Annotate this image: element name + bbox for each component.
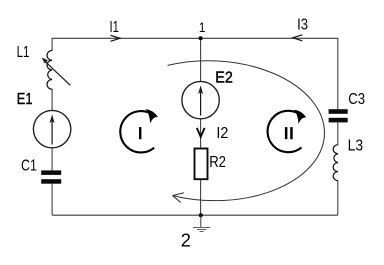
ground <box>193 215 210 231</box>
wire middle between E2 and R2 <box>200 119 202 148</box>
wire right between C3 and L3 <box>337 122 339 145</box>
svg-text:I1: I1 <box>110 17 119 36</box>
wire left between L1 and E1 <box>51 89 53 111</box>
wire right lower segment <box>337 180 339 215</box>
svg-text:2: 2 <box>181 230 191 250</box>
svg-text:I2: I2 <box>216 124 228 142</box>
arrow through L1 (variable) <box>42 58 71 86</box>
inductor L1 <box>47 51 52 90</box>
arrow inside E2 <box>198 85 203 115</box>
current arrow I3 <box>293 35 303 41</box>
wire top-right segment <box>201 37 338 39</box>
wire left upper segment <box>51 38 53 51</box>
node 1 junction dot <box>199 36 203 40</box>
wire middle upper segment <box>200 38 202 81</box>
svg-text:R2: R2 <box>209 154 226 171</box>
wire top-left segment <box>52 37 201 39</box>
flux loop ellipse arrow <box>168 61 325 203</box>
mesh current arrow II (right loop) <box>268 110 307 152</box>
capacitor C3 <box>329 109 348 122</box>
wire left between E1 and C1 <box>51 147 53 170</box>
current arrow I2 <box>197 129 204 137</box>
current arrow I1 <box>111 35 121 41</box>
wire bottom segment <box>52 214 338 216</box>
wire left lower segment <box>51 184 53 216</box>
wire middle lower segment <box>200 180 202 215</box>
svg-text:L1: L1 <box>17 44 30 61</box>
svg-text:C3: C3 <box>348 91 365 108</box>
svg-text:I3: I3 <box>297 16 308 33</box>
capacitor C1 <box>41 170 61 183</box>
source E2 <box>182 81 219 118</box>
inductor L3 <box>333 145 338 181</box>
mesh current arrow I (left loop) <box>120 109 158 152</box>
svg-text:C1: C1 <box>21 156 37 174</box>
resistor R2 <box>195 149 208 180</box>
svg-text:E2: E2 <box>215 69 233 87</box>
svg-text:L3: L3 <box>348 138 363 155</box>
source E1 <box>33 110 70 147</box>
svg-text:1: 1 <box>199 19 205 35</box>
arrow inside E1 <box>50 114 55 144</box>
svg-text:E1: E1 <box>17 91 33 109</box>
node 2 junction dot <box>199 213 203 217</box>
wire right upper segment <box>337 38 339 110</box>
